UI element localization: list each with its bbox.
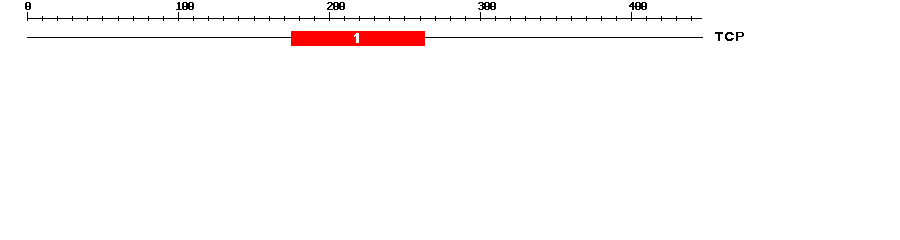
timeline baseline bbox=[27, 37, 703, 38]
segment block 1 bbox=[291, 31, 425, 46]
ruler label 400 bbox=[629, 2, 647, 10]
ruler axis line bbox=[27, 18, 702, 19]
ruler label 100 bbox=[176, 2, 194, 10]
TCP label bbox=[715, 32, 744, 41]
ruler minor ticks bbox=[42, 16, 692, 21]
background bbox=[0, 0, 900, 58]
ruler label 300 bbox=[478, 2, 496, 10]
ruler label 200 bbox=[327, 2, 345, 10]
ruler label 0 bbox=[25, 2, 31, 10]
ruler major ticks bbox=[27, 12, 632, 21]
segment label 1 bbox=[354, 33, 359, 43]
